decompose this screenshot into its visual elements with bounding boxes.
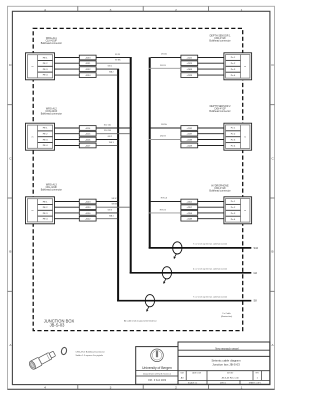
svg-text:-4132: -4132 [187, 128, 193, 130]
svg-text:Seismic cable diagram: Seismic cable diagram [211, 358, 241, 362]
svg-text:Pe 4: Pe 4 [231, 219, 236, 221]
svg-text:m: m [244, 66, 246, 68]
svg-text:S9 W: S9 W [115, 54, 120, 56]
svg-text:-3134: -3134 [85, 75, 91, 77]
svg-text:-4130: -4130 [85, 207, 91, 209]
svg-text:4: 4 [44, 8, 46, 12]
svg-text:Pe 4: Pe 4 [231, 75, 236, 77]
svg-text:S9 BK: S9 BK [115, 60, 121, 62]
svg-text:PE 1: PE 1 [43, 201, 49, 203]
svg-text:PE 4: PE 4 [43, 75, 49, 77]
svg-text:OM - 9 Feb 2009: OM - 9 Feb 2009 [148, 379, 167, 382]
svg-text:PE 3: PE 3 [43, 69, 49, 71]
svg-text:-4158: -4158 [187, 213, 193, 215]
svg-text:DS1 A: DS1 A [161, 53, 167, 56]
svg-text:1: 1 [241, 8, 243, 12]
svg-text:DS2 A: DS2 A [161, 123, 167, 126]
svg-text:HYD B: HYD B [160, 209, 167, 211]
svg-text:CKN-4Y-G Bulkhead Connector: CKN-4Y-G Bulkhead Connector [76, 350, 105, 353]
svg-text:REV: REV [256, 372, 259, 374]
svg-text:DWG NO: DWG NO [227, 372, 234, 374]
svg-text:Bulkhead connector: Bulkhead connector [209, 110, 230, 113]
svg-text:Pe 1: Pe 1 [231, 128, 236, 130]
svg-text:B: B [9, 250, 11, 254]
svg-text:4: 4 [44, 386, 46, 390]
svg-text:-4114: -4114 [85, 128, 91, 130]
svg-text:Pe 3: Pe 3 [231, 213, 236, 215]
svg-text:-4122: -4122 [187, 57, 193, 59]
svg-text:Pe 1: Pe 1 [231, 201, 236, 203]
svg-text:3 x Cable: 3 x Cable [222, 313, 231, 315]
svg-text:-4128: -4128 [187, 145, 193, 147]
svg-text:(illumination): (illumination) [221, 315, 233, 318]
svg-text:-4122: -4122 [85, 219, 91, 221]
svg-text:PE 2: PE 2 [43, 63, 49, 65]
svg-text:-4123: -4123 [187, 63, 193, 65]
svg-text:Junction box JB-S-03: Junction box JB-S-03 [212, 363, 240, 367]
svg-text:New research vessel: New research vessel [215, 347, 239, 350]
svg-text:PE 2: PE 2 [43, 134, 49, 136]
svg-text:3: 3 [110, 8, 112, 12]
svg-text:Bulkhead connector: Bulkhead connector [209, 190, 230, 193]
svg-text:JB-S-03 Rev 1.00: JB-S-03 Rev 1.00 [221, 377, 239, 379]
svg-text:Pe 3: Pe 3 [231, 69, 236, 71]
svg-text:Bulkhead connector: Bulkhead connector [209, 40, 230, 43]
svg-text:-4137: -4137 [187, 134, 193, 136]
svg-text:DWG 1: DWG 1 [220, 383, 226, 385]
svg-text:m: m [32, 137, 34, 139]
svg-text:SHEET 1 OF 1: SHEET 1 OF 1 [249, 383, 262, 385]
svg-text:-4157: -4157 [187, 207, 193, 209]
svg-text:-4143: -4143 [85, 201, 91, 203]
svg-text:University of Bergen: University of Bergen [142, 366, 172, 370]
svg-text:Pe 2: Pe 2 [231, 207, 236, 209]
svg-text:7 x 2 x 0.5 sq mm twi. common: 7 x 2 x 0.5 sq mm twi. common screen [193, 296, 227, 299]
svg-text:PE 3: PE 3 [43, 213, 49, 215]
svg-text:PE 1: PE 1 [43, 57, 49, 59]
svg-text:Bulkhead connector: Bulkhead connector [41, 113, 62, 116]
svg-text:-4128: -4128 [187, 75, 193, 77]
svg-text:S8 W: S8 W [112, 198, 117, 200]
svg-text:-4117: -4117 [85, 145, 91, 147]
svg-text:PE 4: PE 4 [43, 145, 49, 147]
svg-text:All cable ends to ground termi: All cable ends to ground terminal bar [124, 320, 157, 323]
svg-text:2: 2 [175, 8, 177, 12]
svg-text:S10 CA: S10 CA [104, 123, 112, 126]
svg-text:Bulkhead connector: Bulkhead connector [41, 189, 62, 192]
svg-text:3: 3 [110, 386, 112, 390]
svg-text:-3131: -3131 [85, 63, 91, 65]
svg-text:SIZE: SIZE [180, 372, 183, 374]
svg-text:-4116: -4116 [85, 139, 91, 141]
svg-text:m: m [244, 137, 246, 139]
svg-text:m: m [32, 210, 34, 212]
svg-text:-4136: -4136 [85, 213, 91, 215]
svg-text:Bulkhead connector: Bulkhead connector [41, 42, 62, 45]
svg-text:DS1 B: DS1 B [160, 65, 166, 67]
svg-text:-3133: -3133 [85, 57, 91, 59]
svg-text:PE 3: PE 3 [43, 139, 49, 141]
svg-text:S10: S10 [254, 246, 259, 250]
svg-text:PE 2: PE 2 [43, 207, 49, 209]
svg-text:Pe 3: Pe 3 [231, 139, 236, 141]
svg-text:Pe 2: Pe 2 [231, 63, 236, 65]
svg-text:DS2 B: DS2 B [160, 136, 166, 138]
svg-text:JB-S-03: JB-S-03 [50, 323, 66, 328]
svg-text:PE 4: PE 4 [43, 219, 49, 221]
svg-text:Solder 1.5 square 4-in pigtail: Solder 1.5 square 4-in pigtails [76, 354, 104, 357]
svg-text:-3132: -3132 [85, 69, 91, 71]
svg-text:4 x 2 x 0.5 sq mm twi. common: 4 x 2 x 0.5 sq mm twi. common screen [193, 268, 227, 271]
svg-text:PE 1: PE 1 [43, 128, 49, 130]
svg-text:7 x 2 x 0.5 sq mm twi. common: 7 x 2 x 0.5 sq mm twi. common screen [193, 243, 227, 246]
svg-text:2: 2 [175, 386, 177, 390]
svg-text:S8: S8 [254, 299, 258, 303]
svg-text:S10 DB: S10 DB [104, 130, 112, 132]
svg-text:-4148: -4148 [187, 219, 193, 221]
svg-text:m: m [244, 210, 246, 212]
svg-text:m: m [32, 66, 34, 68]
svg-text:S8 BK: S8 BK [111, 204, 117, 206]
svg-text:SCALE 1:2: SCALE 1:2 [188, 382, 197, 385]
svg-text:Pe 4: Pe 4 [231, 145, 236, 147]
svg-text:-4138: -4138 [187, 139, 193, 141]
svg-text:G6: G6 [254, 271, 258, 275]
svg-text:HYD A: HYD A [161, 197, 168, 200]
svg-text:1: 1 [241, 386, 243, 390]
svg-text:Pe 2: Pe 2 [231, 134, 236, 136]
svg-text:-4115: -4115 [85, 134, 91, 136]
svg-text:-4108: -4108 [187, 69, 193, 71]
svg-text:-4152: -4152 [187, 201, 193, 203]
svg-text:Pe 1: Pe 1 [231, 57, 236, 59]
svg-text:B: B [272, 250, 274, 254]
svg-text:Department of Earth Science: Department of Earth Science [143, 373, 172, 376]
